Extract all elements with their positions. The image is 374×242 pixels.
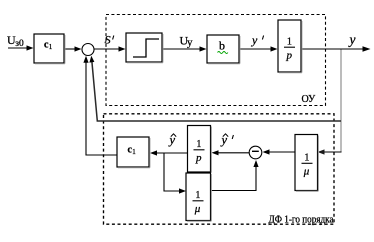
svg-text:S: S [105,33,111,47]
svg-text:ДФ 1-го порядка: ДФ 1-го порядка [269,215,335,226]
svg-text:p: p [195,152,202,164]
svg-text:з0: з0 [15,39,24,49]
svg-text:μ: μ [303,166,310,178]
svg-text:ОУ: ОУ [302,94,317,105]
svg-text:1: 1 [132,148,136,156]
svg-text:μ: μ [194,203,201,215]
svg-text:у: у [187,36,193,48]
svg-text:1: 1 [49,43,53,51]
svg-text:1: 1 [287,37,292,48]
svg-text:y: y [251,33,258,47]
svg-text:1: 1 [195,190,200,201]
svg-text:b: b [219,38,225,52]
svg-text:1: 1 [304,153,309,164]
svg-text:p: p [286,50,293,62]
svg-text:y: y [348,32,356,47]
svg-text:1: 1 [196,139,201,150]
